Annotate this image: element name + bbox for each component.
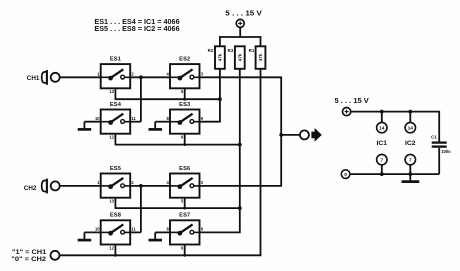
wire ES1 pin13 control stub (114, 88, 116, 99)
wire R1 bottom lead (260, 69, 262, 256)
svg-text:ES6: ES6 (179, 166, 190, 172)
wire ES5 pin13 control stub (114, 198, 116, 208)
wire ES1 out to ES2 in (130, 76, 170, 78)
wire ES8 pin12 control stub (114, 245, 116, 256)
node IC2 pin7 tap (408, 172, 412, 176)
svg-text:6: 6 (181, 245, 184, 250)
svg-text:ES5 . . . ES8 = IC2 = 4066: ES5 . . . ES8 = IC2 = 4066 (94, 26, 179, 33)
svg-text:5 . . . 15 V: 5 . . . 15 V (335, 96, 369, 105)
wire resistor top bus (219, 36, 261, 46)
svg-text:14: 14 (408, 126, 414, 132)
terminal circle CH2 (51, 181, 60, 190)
wire CH1 to ES1 pin1 (60, 76, 101, 78)
svg-text:2: 2 (131, 180, 134, 185)
svg-text:7: 7 (409, 158, 412, 164)
wire ES2 pin5 control stub (184, 88, 186, 99)
wire control line A2 (115, 207, 240, 209)
wire ES4 pin11 to riser (130, 121, 141, 123)
svg-text:"0" = CH2: "0" = CH2 (11, 256, 46, 263)
ground ES3 (149, 128, 163, 131)
node ES1-out / ES4-out junction (139, 75, 143, 79)
wire ES6 pin5 control stub (184, 198, 186, 208)
svg-text:3: 3 (201, 72, 204, 77)
wire supply to bus (239, 27, 241, 37)
node IC2 pin14 tap (408, 110, 412, 114)
svg-text:CH1: CH1 (27, 75, 40, 82)
svg-text:7: 7 (380, 158, 383, 164)
wire stub to IC2 pin14 (409, 112, 411, 123)
switch ES8 (95, 213, 137, 251)
wire ES7 pin8 to ground (155, 232, 170, 239)
svg-text:0: 0 (344, 172, 347, 178)
node R2 / control A junction (218, 97, 222, 101)
wire ES2 pin3 to output riser (200, 77, 282, 186)
svg-text:IC1: IC1 (377, 140, 388, 147)
svg-text:ES7: ES7 (179, 213, 190, 219)
switch ES3 (167, 102, 204, 140)
resistor R2 47k (208, 46, 225, 69)
node IC1 pin14 tap (380, 110, 384, 114)
node R3 / control A2 junction (238, 206, 242, 210)
wire control line A (115, 98, 220, 100)
svg-text:ES1: ES1 (110, 57, 121, 63)
terminal circle 0V (341, 170, 350, 179)
svg-text:ES4: ES4 (110, 102, 122, 108)
svg-text:CH2: CH2 (24, 185, 37, 192)
ground ES8 (78, 239, 92, 242)
wire ES3 pin8 to ground (155, 122, 170, 129)
node ES8 ctrl junction (114, 254, 117, 257)
wire ES7 pin9 to riser (200, 231, 241, 233)
switch ES2 (167, 57, 204, 95)
svg-text:9: 9 (201, 227, 204, 232)
wire junction down to ES8 pin11 (140, 186, 142, 233)
node ES7 ctrl junction (183, 254, 186, 257)
resistor R1 47k (249, 46, 266, 69)
svg-text:6: 6 (181, 135, 184, 140)
svg-text:ES5: ES5 (110, 166, 121, 172)
wire junction down to ES4 pin11 (140, 77, 142, 121)
svg-text:5: 5 (181, 199, 184, 204)
wire ES8 pin11 to riser (130, 231, 141, 233)
jack plug symbol CH2 (42, 179, 47, 194)
wire ES3 pin9 to control A riser (200, 121, 221, 123)
jack plug symbol CH1 (42, 70, 47, 85)
wire IC1 pin7 stub (381, 165, 383, 174)
node output junction (279, 133, 283, 137)
resistor R3 47k (228, 46, 245, 69)
svg-text:3: 3 (201, 180, 204, 185)
wire bottom rail (350, 173, 439, 175)
wire IC2 pin7 stub (409, 165, 411, 174)
svg-text:C1: C1 (431, 135, 437, 140)
wire R2 bottom lead (219, 69, 221, 99)
supply terminal (+) (236, 19, 244, 27)
ground ES4 (78, 128, 92, 131)
svg-text:5: 5 (181, 89, 184, 94)
svg-text:"1" = CH1: "1" = CH1 (12, 249, 47, 256)
wire CH2 to ES5 pin1 (60, 185, 101, 187)
wire control line B (115, 144, 240, 146)
svg-text:R3: R3 (228, 48, 234, 53)
svg-text:11: 11 (131, 116, 136, 121)
node ES2 ctrl junction (183, 98, 186, 101)
svg-text:47k: 47k (218, 53, 223, 61)
wire top supply rail (351, 111, 439, 142)
svg-text:2: 2 (131, 72, 134, 77)
supply terminal (+) right (343, 108, 351, 116)
wire ES7 pin6 control stub (184, 245, 186, 256)
wire ES4 pin12 control stub (114, 134, 116, 145)
svg-text:13: 13 (109, 199, 114, 204)
svg-text:100n: 100n (441, 149, 451, 154)
switch ES6 (167, 166, 204, 204)
svg-text:IC2: IC2 (405, 140, 416, 147)
wire output (281, 134, 300, 136)
switch ES1 (97, 57, 134, 95)
node IC1 pin7 tap (380, 172, 384, 176)
node R3 / control B junction (238, 143, 242, 147)
wire ES4 pin10 to ground (84, 122, 100, 129)
svg-text:47k: 47k (258, 53, 263, 61)
svg-text:14: 14 (379, 126, 385, 132)
svg-text:R1: R1 (249, 48, 255, 53)
svg-text:12: 12 (109, 245, 114, 250)
jack plug symbol output (311, 128, 321, 142)
svg-text:13: 13 (109, 89, 114, 94)
pin IC2 7 (405, 154, 415, 164)
ground ES7 (149, 239, 163, 242)
svg-text:12: 12 (109, 135, 114, 140)
wire ES6 pin3 to output riser (200, 185, 283, 187)
svg-text:10: 10 (95, 227, 100, 232)
svg-text:5 . . . 15 V: 5 . . . 15 V (225, 9, 262, 18)
ground right sub-circuit (402, 180, 420, 183)
node ES5-out / ES8-out junction (139, 184, 143, 188)
node ES3 ctrl junction (183, 143, 186, 146)
svg-text:9: 9 (201, 116, 204, 121)
switch ES5 (97, 166, 134, 204)
wire ES3 pin6 control stub (184, 134, 186, 145)
svg-text:ES3: ES3 (179, 102, 190, 108)
switch ES4 (95, 102, 137, 140)
pin IC1 14 (377, 122, 387, 132)
wire control A down to ES3 out (219, 99, 221, 122)
node ES6 ctrl junction (183, 207, 186, 210)
wire ES5 out to ES6 in (130, 185, 170, 187)
svg-text:11: 11 (131, 227, 136, 232)
svg-text:10: 10 (95, 116, 100, 121)
svg-text:R2: R2 (208, 48, 214, 53)
terminal circle CH1 (51, 73, 60, 82)
pin IC1 7 (377, 154, 387, 164)
svg-text:ES8: ES8 (110, 213, 121, 219)
wire R3 bottom lead (239, 69, 241, 208)
wire IC2 ground stub (409, 174, 411, 180)
wire control input line (60, 254, 262, 256)
switch ES7 (167, 213, 204, 251)
terminal circle control input (51, 251, 60, 260)
svg-text:47k: 47k (237, 53, 242, 61)
svg-text:ES2: ES2 (179, 57, 190, 63)
terminal circle output (300, 130, 309, 139)
pin IC2 14 (405, 122, 415, 132)
wire ES8 pin10 to ground (84, 232, 100, 239)
capacitor C1 100n (431, 135, 451, 175)
wire control A2 down to ES7 out (239, 208, 241, 232)
wire stub to IC1 pin14 (381, 112, 383, 123)
